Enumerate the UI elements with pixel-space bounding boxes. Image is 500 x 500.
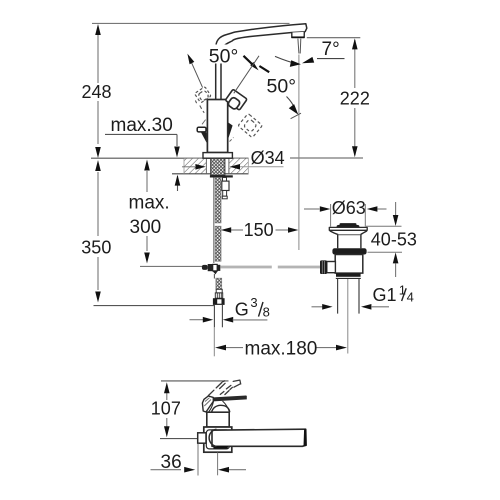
- svg-text:G: G: [235, 299, 249, 319]
- svg-text:Ø34: Ø34: [251, 148, 285, 168]
- svg-text:3: 3: [250, 295, 257, 310]
- svg-text:8: 8: [263, 305, 270, 320]
- svg-text:40-53: 40-53: [371, 229, 417, 249]
- svg-text:Ø63: Ø63: [332, 198, 366, 218]
- svg-text:150: 150: [244, 220, 274, 240]
- svg-text:350: 350: [81, 238, 111, 258]
- svg-text:7°: 7°: [322, 39, 340, 60]
- svg-text:G1: G1: [373, 285, 397, 305]
- svg-text:222: 222: [340, 88, 370, 108]
- svg-text:max.: max.: [129, 193, 170, 214]
- svg-text:4: 4: [407, 289, 414, 304]
- svg-text:max.180: max.180: [245, 338, 318, 359]
- svg-text:248: 248: [82, 82, 112, 102]
- svg-text:300: 300: [130, 217, 162, 238]
- svg-text:36: 36: [161, 452, 182, 473]
- svg-text:1: 1: [399, 282, 406, 297]
- svg-text:max.30: max.30: [111, 115, 173, 136]
- svg-text:50°: 50°: [267, 76, 297, 98]
- svg-text:107: 107: [151, 398, 181, 418]
- svg-text:50°: 50°: [209, 45, 239, 67]
